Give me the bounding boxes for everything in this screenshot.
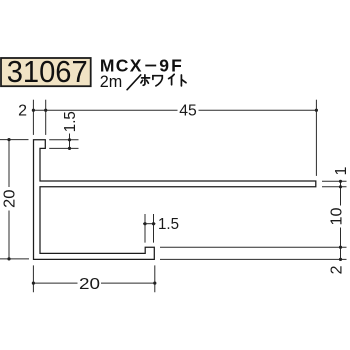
extension lines right 1 — [322, 181, 347, 187]
dim dot — [68, 138, 71, 141]
extension lines 1.5 bottom — [145, 214, 154, 243]
svg-text:2: 2 — [328, 265, 345, 274]
product code box — [1, 58, 91, 86]
dimension line 1.5 bottom — [143, 223, 156, 225]
dim dot — [339, 258, 342, 261]
svg-text:1.5: 1.5 — [158, 216, 179, 233]
dimension line left 20 — [8, 140, 10, 259]
dimension line top — [33, 109, 316, 111]
svg-text:20: 20 — [79, 276, 100, 293]
extension lines left 20 — [0, 140, 29, 259]
svg-text:9F: 9F — [159, 55, 184, 75]
svg-text:45: 45 — [179, 103, 197, 120]
dimension line 1.5 top — [69, 134, 71, 151]
svg-text:1: 1 — [333, 167, 350, 176]
extension lines bottom 20 — [33, 265, 154, 292]
dim dot — [44, 109, 47, 112]
svg-text:1.5: 1.5 — [62, 111, 79, 132]
katakana HO — [141, 75, 150, 85]
dim dot — [152, 222, 155, 225]
svg-text:31067: 31067 — [7, 55, 88, 89]
katakana TO — [181, 75, 186, 86]
dim dot — [7, 257, 10, 260]
fullwidth slash — [127, 75, 141, 90]
dim dot — [32, 282, 35, 285]
extension line top left a — [32, 100, 34, 135]
extension lines 1.5 top — [49, 140, 78, 149]
dim dot — [339, 180, 342, 183]
katakana WA — [153, 76, 162, 86]
profile cross-section outline — [34, 140, 316, 260]
svg-text:2: 2 — [18, 103, 27, 120]
serif foot of digit 1 — [25, 80, 33, 82]
dim dot — [153, 282, 156, 285]
extension line top right 45 — [315, 100, 317, 176]
dim dot — [68, 147, 71, 150]
svg-text:10: 10 — [329, 207, 346, 225]
dim dot — [339, 246, 342, 249]
dim dot — [315, 109, 318, 112]
svg-text:2m: 2m — [100, 73, 123, 91]
dim dot — [339, 185, 342, 188]
dimension line bottom 20 — [33, 282, 154, 284]
katakana I — [169, 74, 175, 85]
extension line top left b — [45, 100, 47, 135]
extension lines right 2 — [160, 247, 347, 259]
dim dot — [7, 138, 10, 141]
svg-text:20: 20 — [1, 189, 18, 208]
dim dot — [143, 222, 146, 225]
dim dot — [32, 109, 35, 112]
dimension line right stack — [340, 181, 342, 260]
